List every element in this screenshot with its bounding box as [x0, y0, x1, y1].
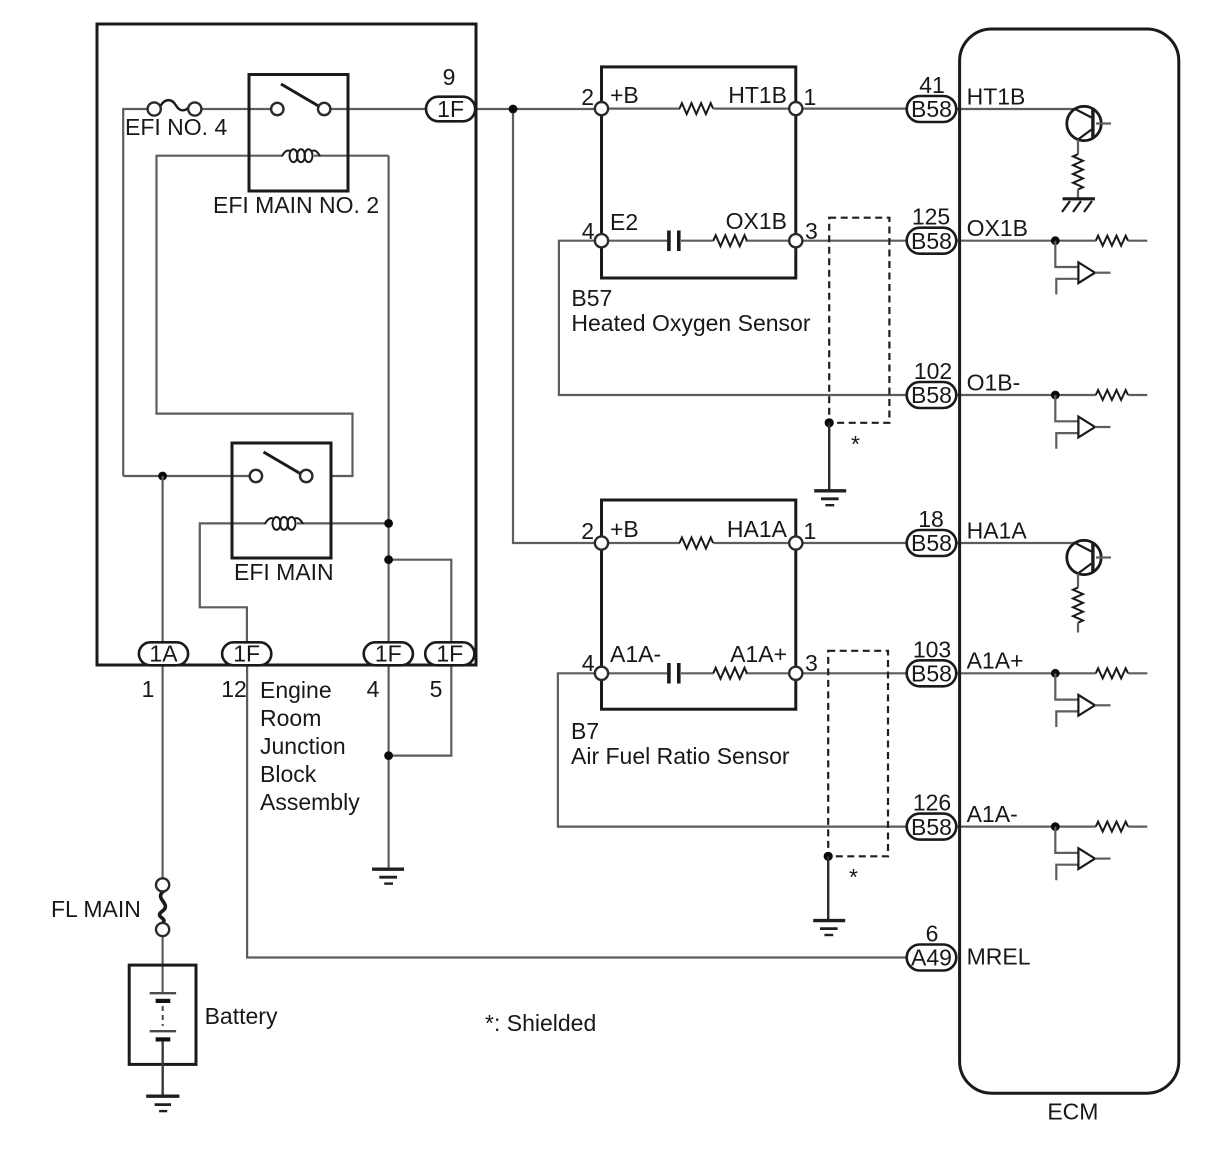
resistor below HA1A transistor: [1073, 588, 1083, 623]
node: shield ground junction below block: [384, 751, 393, 760]
wire: ECM A1A- resistor tail: [1128, 825, 1147, 827]
capacitor inside B7: [667, 663, 671, 684]
svg-text:+B: +B: [610, 82, 639, 108]
svg-text:B58: B58: [911, 661, 952, 687]
shield box around OX1B/O1B- wires: [825, 218, 890, 491]
svg-text:3: 3: [805, 650, 818, 676]
node: junction to 1F(5): [384, 555, 393, 564]
wire: FL MAIN to battery: [162, 936, 164, 995]
svg-text:1A: 1A: [149, 641, 178, 667]
svg-text:EFI MAIN: EFI MAIN: [234, 559, 334, 585]
wire: ECM O1B- resistor tail: [1128, 394, 1147, 396]
wire: B7 +B row left: [608, 542, 681, 544]
battery: [129, 965, 196, 1096]
svg-text:HT1B: HT1B: [728, 82, 787, 108]
svg-text:1F: 1F: [437, 96, 464, 122]
wire: ECM A1A+ internal: [955, 672, 1096, 674]
connector A49 pin 6 oval: [907, 945, 957, 971]
svg-text:Battery: Battery: [205, 1003, 278, 1029]
wire: +B trunk vertical: [513, 109, 596, 543]
svg-text:B58: B58: [911, 814, 952, 840]
wire: link to 1F(5): [389, 560, 452, 646]
svg-text:6: 6: [926, 921, 939, 947]
svg-text:+B: +B: [610, 516, 639, 542]
resistor below HT1B transistor: [1073, 154, 1083, 189]
wire: B7 A1A+ pin3 to B58(103): [802, 672, 909, 674]
wire: B7 A1A- row to capacitor: [608, 672, 668, 674]
ground for B7 shield: [813, 921, 845, 935]
svg-text:5: 5: [430, 676, 443, 702]
relay EFI MAIN NO. 2: [249, 75, 348, 192]
wire: B57 HT1B pin1 to B58(41): [802, 107, 909, 109]
chassis ground inside ECM: [1062, 199, 1095, 212]
svg-text:18: 18: [918, 506, 944, 532]
connector B58 pin 18 oval: [907, 530, 957, 556]
connector 1F pin 9 oval: [426, 96, 475, 122]
wire: B7 capacitor to resistor: [681, 672, 714, 674]
transistor driver for HT1B: [1067, 106, 1111, 199]
wire: B57 E2 row to capacitor: [608, 240, 668, 242]
svg-text:Engine: Engine: [260, 677, 332, 703]
pin 4 of B7: [595, 667, 608, 680]
sensor B57 box: [595, 67, 803, 278]
capacitor inside B57: [667, 231, 671, 252]
buffer amp for OX1B: [1051, 236, 1128, 295]
connector 1F pin 12 oval: [222, 641, 271, 667]
svg-text:A1A+: A1A+: [730, 641, 787, 667]
svg-text:B58: B58: [911, 530, 952, 556]
pin 3 of B57: [789, 234, 802, 247]
pin 2 of B7: [595, 536, 608, 549]
wire: battery feed horizontal to EFI MAIN switch: [123, 475, 250, 477]
svg-text:12: 12: [221, 676, 247, 702]
ground below battery: [146, 1096, 179, 1111]
resistor HA1A heater inside B7: [680, 538, 714, 549]
ground below junction block: [372, 869, 404, 883]
svg-text:9: 9: [443, 64, 456, 90]
wire: relay1 coil right horizontal: [314, 155, 389, 157]
wire: B7 HA1A pin1 to B58(18): [802, 542, 909, 544]
svg-text:1: 1: [142, 676, 155, 702]
connector B58 pin 41 oval: [907, 96, 957, 122]
wire: ECM HT1B internal: [955, 108, 1075, 110]
wire: B57 OX1B pin3 to B58(125): [802, 240, 909, 242]
wire: B57 +B row right: [714, 107, 791, 109]
wire: B57 capacitor to resistor: [681, 240, 714, 242]
fuse EFI NO. 4: [148, 100, 202, 115]
pin 2 of B57: [595, 102, 608, 115]
svg-text:1: 1: [804, 84, 817, 110]
connector B58 pin 102 oval: [907, 382, 957, 408]
wire: 1F(4) below block to ground: [388, 661, 390, 869]
wire: fuse to relay EFI MAIN NO.2 switch: [201, 108, 272, 110]
svg-text:FL MAIN: FL MAIN: [51, 896, 141, 922]
connector B58 pin 126 oval: [907, 814, 957, 840]
svg-text:EFI MAIN NO. 2: EFI MAIN NO. 2: [213, 192, 379, 218]
svg-text:*: *: [849, 864, 858, 890]
svg-text:102: 102: [914, 358, 952, 384]
fusible link FL MAIN: [156, 878, 169, 936]
transistor driver for HA1A: [1067, 540, 1111, 632]
svg-text:MREL: MREL: [967, 944, 1031, 970]
svg-text:HA1A: HA1A: [727, 516, 788, 542]
connector 1A pin 1 oval: [139, 641, 188, 667]
svg-text:OX1B: OX1B: [726, 208, 787, 234]
wire: B57 resistor to pin3: [746, 240, 791, 242]
svg-text:3: 3: [805, 218, 818, 244]
node: coil junction on 1F(4) vertical: [384, 519, 393, 528]
shield box around A1A+/A1A- wires: [824, 651, 888, 921]
wire: ECM HA1A internal: [955, 542, 1075, 544]
wire: EFI MAIN coil left lead down to 1F(12): [200, 523, 266, 646]
wire: ECM A1A+ resistor tail: [1128, 672, 1147, 674]
svg-text:A1A-: A1A-: [967, 801, 1018, 827]
pin 3 of B7: [789, 667, 802, 680]
connector B58 pin 125 oval: [907, 228, 957, 254]
svg-text:A1A-: A1A-: [610, 641, 661, 667]
svg-text:1F: 1F: [233, 641, 260, 667]
svg-text:B58: B58: [911, 382, 952, 408]
svg-text:4: 4: [582, 218, 595, 244]
svg-text:Room: Room: [260, 705, 321, 731]
node: trunk junction: [509, 105, 518, 114]
svg-text:*: *: [851, 431, 860, 457]
ground for B57 shield: [814, 491, 846, 505]
wire: B7 A1A- pin4 loop to B58(126): [558, 673, 908, 826]
wire: ECM O1B- internal: [955, 394, 1096, 396]
resistor A1A- inside ECM: [1096, 822, 1128, 832]
svg-text:HA1A: HA1A: [967, 517, 1028, 543]
svg-text:A49: A49: [911, 945, 952, 971]
connector B58 pin 103 oval: [907, 660, 957, 686]
connector 1F pin 5 oval: [425, 641, 474, 667]
label Engine Room Junction Block Assembly: [260, 677, 360, 815]
svg-text:41: 41: [919, 72, 945, 98]
svg-text:Junction: Junction: [260, 733, 346, 759]
wire: 1F(9) to B57 pin2 trunk: [474, 108, 596, 110]
svg-text:Heated Oxygen Sensor: Heated Oxygen Sensor: [571, 310, 810, 336]
resistor A1A+ inside ECM: [1096, 668, 1128, 678]
buffer amp for O1B-: [1051, 390, 1128, 449]
svg-text:125: 125: [912, 204, 950, 230]
resistor OX1B inside B57: [713, 235, 747, 246]
wire: EFI MAIN coil right lead: [297, 522, 389, 524]
wire: battery vertical through 1A(1): [162, 476, 164, 879]
svg-text:103: 103: [913, 636, 951, 662]
svg-text:EFI NO. 4: EFI NO. 4: [125, 114, 227, 140]
svg-text:B58: B58: [911, 96, 952, 122]
svg-text:Assembly: Assembly: [260, 789, 360, 815]
svg-text:*: Shielded: *: Shielded: [485, 1010, 596, 1036]
svg-text:HT1B: HT1B: [967, 83, 1026, 109]
svg-text:OX1B: OX1B: [967, 215, 1028, 241]
wire: ECM OX1B internal: [955, 240, 1096, 242]
wire: relay EFI MAIN NO.2 switch output to 1F(9): [330, 108, 427, 110]
svg-text:ECM: ECM: [1047, 1099, 1098, 1125]
wire: fuse feed left vertical: [122, 109, 124, 476]
svg-text:1F: 1F: [436, 641, 463, 667]
connector 1F pin 4 oval: [364, 641, 413, 667]
wire: B57 +B row left: [608, 107, 681, 109]
wire: ECM OX1B resistor tail: [1128, 240, 1147, 242]
resistor HT1B heater inside B57: [680, 103, 714, 114]
svg-text:4: 4: [582, 650, 595, 676]
pin 1 of B57: [789, 102, 802, 115]
buffer amp for A1A+: [1051, 668, 1128, 727]
wire: horizontal into EFI NO.4 fuse: [122, 108, 149, 110]
svg-text:Air Fuel Ratio Sensor: Air Fuel Ratio Sensor: [571, 743, 790, 769]
junction block: Engine Room Junction Block Assembly boundary: [97, 24, 476, 665]
resistor O1B- inside ECM: [1096, 390, 1128, 400]
svg-text:Block: Block: [260, 761, 317, 787]
wire: B57 E2 pin4 loop to B58(102): [559, 241, 908, 395]
svg-text:1: 1: [804, 518, 817, 544]
ECM box: [960, 29, 1179, 1093]
resistor OX1B inside ECM: [1096, 236, 1128, 246]
pin 4 of B57: [595, 234, 608, 247]
svg-text:B57: B57: [571, 285, 612, 311]
buffer amp for A1A-: [1051, 822, 1128, 881]
relay EFI MAIN: [232, 443, 331, 558]
svg-text:B7: B7: [571, 718, 599, 744]
svg-text:2: 2: [581, 518, 594, 544]
wire: 1F(5) below block joining ground wire: [389, 661, 452, 756]
resistor A1A+ inside B7: [713, 668, 747, 679]
svg-text:4: 4: [367, 676, 380, 702]
node: battery feed junction: [158, 472, 167, 481]
sensor B7 box: [595, 500, 803, 709]
pin 1 of B7: [789, 536, 802, 549]
svg-text:A1A+: A1A+: [967, 648, 1024, 674]
wire: relay1 coil left lead: [157, 156, 353, 476]
svg-text:1F: 1F: [375, 641, 402, 667]
svg-text:E2: E2: [610, 209, 638, 235]
wire: ECM A1A- internal: [955, 825, 1096, 827]
svg-text:B58: B58: [911, 228, 952, 254]
wire: relay1 coil right lead down to 1F(4): [388, 156, 390, 646]
wire: MREL from 1F(12) to A49: [247, 661, 908, 958]
svg-text:126: 126: [913, 790, 951, 816]
svg-text:2: 2: [581, 84, 594, 110]
wire: B7 +B row right: [714, 542, 791, 544]
wire: B7 resistor to pin3: [746, 672, 791, 674]
svg-text:O1B-: O1B-: [967, 369, 1021, 395]
